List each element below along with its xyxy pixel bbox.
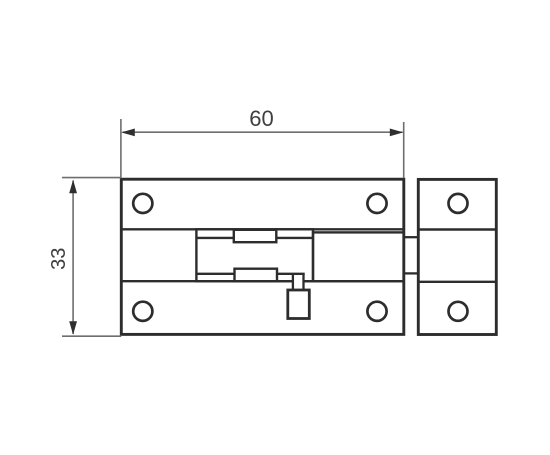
main plate upper divider line — [121, 228, 404, 230]
screw hole top-right — [367, 194, 386, 213]
bolt rod bottom edge — [196, 273, 304, 275]
keeper plate body — [418, 179, 496, 334]
main plate body — [121, 179, 404, 334]
width dimension arrow right — [390, 129, 404, 137]
height extension line bottom — [62, 335, 121, 337]
width dimension arrow left — [121, 129, 135, 137]
keeper screw hole top — [449, 194, 468, 213]
bolt rod between plates top edge — [404, 236, 419, 238]
height dimension line — [72, 181, 74, 335]
svg-text:60: 60 — [249, 106, 273, 131]
width dimension line — [123, 131, 403, 133]
lower retaining tab — [235, 269, 278, 282]
keeper screw hole bottom — [449, 302, 468, 321]
screw hole bottom-right — [367, 302, 386, 321]
width extension line right — [403, 122, 405, 178]
screw hole top-left — [133, 194, 152, 213]
upper retaining tab — [234, 230, 276, 242]
height dimension arrow up — [69, 180, 77, 194]
bolt rod top edge — [196, 237, 313, 239]
svg-text:33: 33 — [48, 248, 70, 270]
knob stem — [293, 274, 304, 291]
screw hole bottom-left — [133, 302, 152, 321]
height dimension arrow down — [69, 321, 77, 335]
main plate lower divider line — [121, 280, 404, 282]
barrel housing — [313, 232, 404, 281]
bolt rod between plates bottom edge — [404, 272, 419, 274]
width extension line left — [120, 119, 122, 178]
height extension line top — [62, 177, 121, 179]
keeper lower divider line — [418, 281, 496, 283]
slider guide frame — [196, 229, 313, 281]
knob handle — [288, 290, 310, 319]
keeper upper divider line — [418, 228, 496, 230]
